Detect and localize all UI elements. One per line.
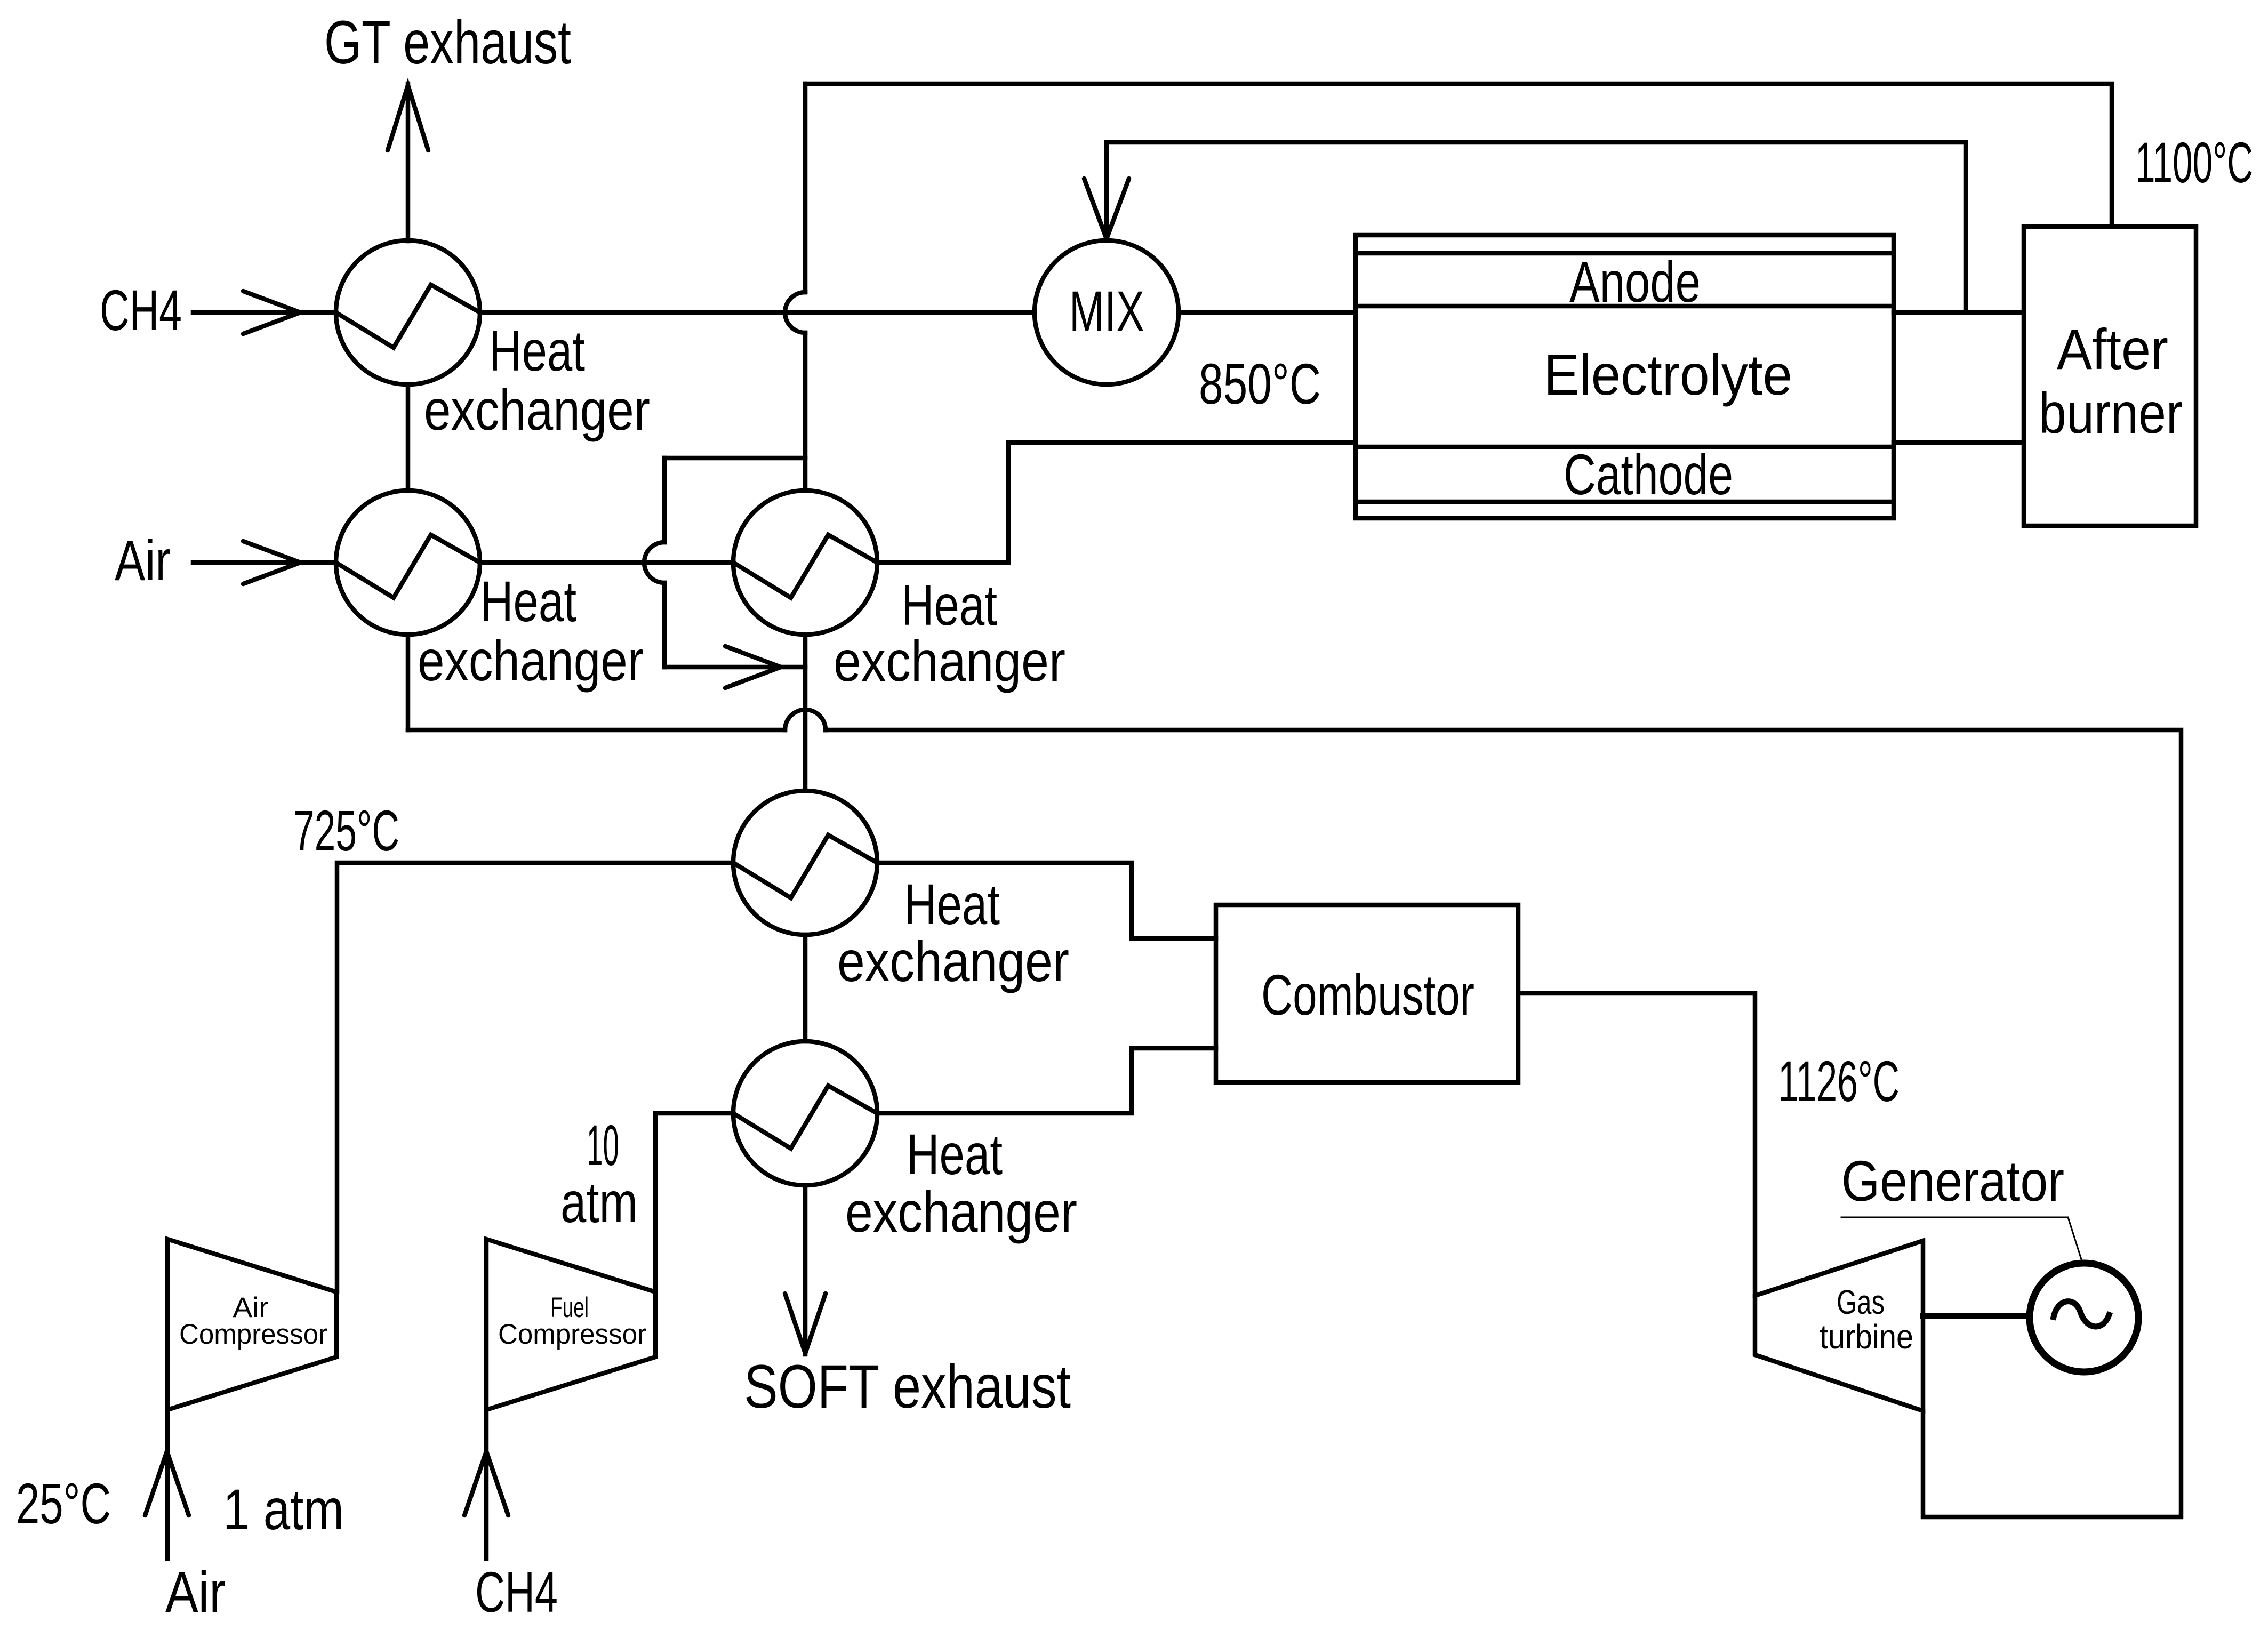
gas turbine trapezoid <box>1755 1241 1923 1411</box>
fuel compressor trapezoid <box>486 1239 655 1410</box>
svg-text:10: 10 <box>587 1113 619 1177</box>
svg-text:exchanger: exchanger <box>834 629 1065 693</box>
heat exchanger HX3 zigzag <box>733 535 877 598</box>
arrowhead SOFT exhaust <box>785 1294 826 1353</box>
wire HX5 to combustor <box>877 1048 1216 1113</box>
svg-text:Heat: Heat <box>480 569 576 633</box>
svg-text:Air: Air <box>115 528 171 592</box>
svg-text:Heat: Heat <box>901 573 997 637</box>
heat exchanger HX1 circle <box>336 240 480 384</box>
fuel cell inner line electrolyte bottom <box>1356 445 1894 449</box>
wire long exhaust line left part <box>408 728 785 733</box>
heat exchanger HX4 zigzag <box>733 835 877 898</box>
arrowhead CH4 inlet bottom <box>464 1451 508 1515</box>
hop over fuel line <box>785 292 805 333</box>
svg-text:exchanger: exchanger <box>845 1179 1077 1244</box>
svg-text:burner: burner <box>2039 381 2183 445</box>
wire CH4 inlet <box>193 310 336 315</box>
fuel cell inner line anode bottom <box>1356 304 1894 309</box>
wire fuel line HX1 to MIX <box>480 310 1035 315</box>
svg-text:turbine: turbine <box>1820 1318 1913 1356</box>
generator shaft <box>1923 1313 2031 1319</box>
svg-text:Heat: Heat <box>907 1122 1003 1186</box>
wire bypass vertical upper <box>662 458 667 542</box>
svg-text:CH4: CH4 <box>475 1560 558 1624</box>
svg-text:Cathode: Cathode <box>1564 442 1733 507</box>
wire combustor to gas turbine <box>1518 993 1755 1296</box>
wire 725C line from air compressor <box>337 863 733 1292</box>
generator sine symbol <box>2054 1302 2109 1327</box>
mixer MIX circle <box>1035 240 1179 384</box>
svg-text:Gas: Gas <box>1837 1283 1885 1321</box>
svg-text:Compressor: Compressor <box>179 1319 327 1350</box>
wire HX3 to HX4 <box>803 635 808 791</box>
wire CH4 inlet bottom <box>484 1410 489 1559</box>
svg-text:25°C: 25°C <box>16 1471 111 1536</box>
svg-text:850°C: 850°C <box>1199 351 1321 416</box>
heat exchanger HX4 circle <box>733 791 877 935</box>
wire after burner to top line <box>805 84 2112 227</box>
combustor box <box>1216 905 1518 1082</box>
svg-text:Anode: Anode <box>1569 250 1701 314</box>
arrowhead air inlet <box>145 1451 189 1515</box>
svg-text:After: After <box>2057 317 2168 381</box>
svg-text:GT exhaust: GT exhaust <box>324 9 571 77</box>
svg-text:exchanger: exchanger <box>837 929 1069 993</box>
hop over HX3-HX4 line <box>785 710 826 730</box>
wire vertical 1510 top segment <box>803 84 808 292</box>
svg-text:exchanger: exchanger <box>424 378 650 442</box>
fuel cell stack outer box <box>1356 235 1894 518</box>
wire HX4 to HX5 <box>803 935 808 1041</box>
wire air inlet bottom <box>165 1410 170 1559</box>
wire MIX inlet drop <box>1104 142 1109 240</box>
generator leader line <box>1841 1217 2082 1261</box>
wire bypass top <box>664 456 805 461</box>
wire fuel compressor to HX5 <box>655 1113 733 1292</box>
generator circle <box>2030 1263 2138 1372</box>
wire HX4 to combustor <box>877 863 1216 938</box>
svg-text:MIX: MIX <box>1069 279 1144 343</box>
fuel cell inner line top <box>1356 251 1894 256</box>
heat exchanger HX5 circle <box>733 1041 877 1185</box>
svg-text:Air: Air <box>165 1560 226 1624</box>
wire HX2 down to long exhaust line <box>406 635 411 730</box>
arrowhead MIX inlet <box>1084 179 1129 239</box>
svg-text:Heat: Heat <box>904 872 1000 936</box>
svg-text:1126°C: 1126°C <box>1778 1049 1900 1113</box>
arrowhead CH4 inlet <box>243 291 300 334</box>
svg-text:Electrolyte: Electrolyte <box>1544 342 1792 407</box>
svg-text:exchanger: exchanger <box>418 628 644 693</box>
svg-text:Generator: Generator <box>1841 1149 2064 1213</box>
wire cathode out to after burner <box>1894 440 2024 445</box>
wire cathode feed from HX3 <box>877 443 1356 563</box>
arrowhead GT exhaust up <box>388 85 428 150</box>
arrowhead bypass <box>725 646 781 688</box>
heat exchanger HX3 circle <box>733 491 877 635</box>
wire air line HX2 to HX3 <box>480 560 733 565</box>
svg-text:Compressor: Compressor <box>498 1319 646 1350</box>
heat exchanger HX2 circle <box>336 491 480 635</box>
svg-text:Heat: Heat <box>489 318 585 383</box>
wire vertical 1510 to HX3 <box>803 333 808 491</box>
heat exchanger HX2 zigzag <box>336 535 480 598</box>
wire GT exhaust stack <box>406 84 411 241</box>
svg-text:725°C: 725°C <box>293 798 399 863</box>
wire MIX to fuel cell <box>1179 310 1356 315</box>
wire SOFT exhaust <box>803 1185 808 1354</box>
hop over air line <box>644 542 664 583</box>
after burner box <box>2024 227 2196 526</box>
svg-text:1 atm: 1 atm <box>223 1477 344 1541</box>
fuel cell inner line cathode bottom <box>1356 500 1894 504</box>
heat exchanger HX5 zigzag <box>733 1086 877 1149</box>
wire Air inlet <box>193 560 336 565</box>
wire long exhaust line right part <box>826 730 2181 1517</box>
wire bypass vertical lower <box>662 583 667 667</box>
svg-text:SOFT exhaust: SOFT exhaust <box>744 1353 1071 1421</box>
heat exchanger HX1 zigzag <box>336 285 480 348</box>
wire anode recycle loop <box>1107 142 1966 312</box>
air compressor trapezoid <box>167 1239 336 1410</box>
svg-text:Combustor: Combustor <box>1261 962 1474 1027</box>
svg-text:atm: atm <box>560 1170 638 1234</box>
arrowhead Air inlet <box>243 541 300 584</box>
svg-text:CH4: CH4 <box>100 278 182 342</box>
wire bypass bottom with arrow <box>664 665 805 670</box>
wire anode out to after burner <box>1894 310 2024 315</box>
wire HX1 to HX2 <box>406 384 411 491</box>
svg-text:1100°C: 1100°C <box>2135 130 2253 195</box>
